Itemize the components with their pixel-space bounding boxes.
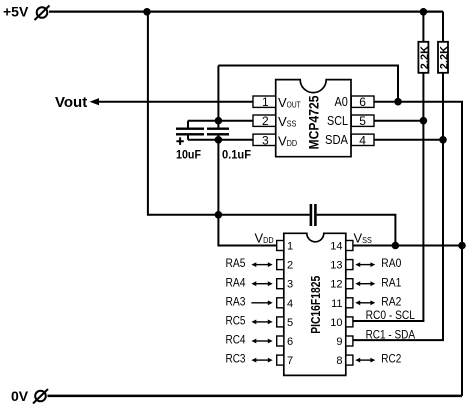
svg-text:1: 1 bbox=[287, 241, 293, 253]
power terminal +5V bbox=[35, 6, 50, 21]
svg-text:14: 14 bbox=[330, 241, 342, 253]
resistor R1 2.2K bbox=[418, 42, 431, 73]
node junction MCP VDD / C2 bbox=[215, 136, 223, 144]
IC U2 PIC16F1825 body bbox=[284, 233, 346, 375]
IC U1 MCP4725 DAC body bbox=[276, 80, 351, 157]
svg-text:3: 3 bbox=[262, 133, 269, 147]
svg-text:6: 6 bbox=[287, 336, 293, 348]
U2 pin 2 box bbox=[277, 260, 293, 272]
wire ground vertical above C2 bbox=[217, 66, 219, 128]
svg-text:11: 11 bbox=[331, 298, 342, 310]
svg-text:3: 3 bbox=[287, 279, 293, 291]
svg-text:RA4: RA4 bbox=[226, 275, 246, 289]
wire MCP pin 5 SCL bbox=[374, 120, 423, 122]
wire MCP pin 2 VSS bbox=[188, 120, 253, 122]
svg-text:8: 8 bbox=[336, 355, 342, 367]
node junction SCL / R1 bbox=[420, 117, 428, 125]
U1 pin 1 box bbox=[253, 95, 276, 109]
wire +5V vertical drop to VDD node bbox=[148, 12, 310, 215]
U2 pin 4 box bbox=[277, 298, 293, 310]
U2 pin 8 box bbox=[336, 355, 353, 367]
capacitor C2 0.1uF bbox=[207, 128, 229, 136]
U2 pin 10 box bbox=[330, 317, 353, 329]
wire +5V rail bbox=[49, 10, 443, 12]
port RA2 bbox=[355, 294, 401, 308]
svg-text:RC1 - SDA: RC1 - SDA bbox=[366, 327, 415, 341]
svg-text:RA3: RA3 bbox=[226, 294, 246, 308]
svg-text:5: 5 bbox=[287, 317, 293, 329]
svg-text:SCL: SCL bbox=[327, 113, 348, 128]
node junction A0 wire / ground link bbox=[394, 98, 402, 106]
U2 pin 11 box bbox=[331, 298, 353, 310]
wire VDD vertical below C2 bbox=[217, 135, 219, 214]
U2 pin 6 box bbox=[277, 336, 293, 348]
svg-text:10uF: 10uF bbox=[176, 148, 201, 162]
svg-text:RC3: RC3 bbox=[226, 352, 246, 366]
port RA0 bbox=[355, 256, 401, 270]
port RA3 bbox=[226, 294, 273, 308]
resistor R2 2.2K bbox=[438, 42, 451, 73]
U2 pin 5 box bbox=[277, 317, 293, 329]
U1 pin 3 box bbox=[253, 133, 276, 147]
svg-text:1: 1 bbox=[262, 95, 269, 109]
U2 pin 7 box bbox=[277, 355, 293, 367]
svg-text:10: 10 bbox=[330, 317, 342, 329]
svg-text:PIC16F1825: PIC16F1825 bbox=[308, 276, 323, 334]
svg-text:6: 6 bbox=[359, 95, 366, 109]
svg-text:RA2: RA2 bbox=[381, 294, 401, 308]
svg-text:2: 2 bbox=[262, 114, 269, 128]
U2 pin 1 box bbox=[277, 241, 293, 253]
port RC2 bbox=[355, 352, 401, 366]
svg-text:7: 7 bbox=[287, 355, 293, 367]
wire A0-to-ground link bbox=[218, 66, 398, 102]
svg-text:RC0 - SCL: RC0 - SCL bbox=[366, 308, 416, 322]
wire R1 top lead bbox=[422, 12, 424, 42]
U2 pin 9 box bbox=[336, 336, 353, 348]
U1 pin 4 box bbox=[351, 133, 374, 147]
U2 pin 3 box bbox=[277, 279, 293, 291]
node junction MCP VSS / ground vertical bbox=[215, 117, 223, 125]
wire MCP pin 6 A0 to 0V right edge bbox=[374, 102, 462, 396]
svg-text:2.2K: 2.2K bbox=[439, 46, 451, 69]
wire C1 top lead bbox=[187, 121, 189, 128]
svg-text:0V: 0V bbox=[11, 388, 29, 404]
U2 pin 14 box bbox=[330, 241, 353, 253]
ground terminal 0V bbox=[33, 389, 48, 404]
svg-text:RA0: RA0 bbox=[381, 256, 401, 270]
svg-text:2: 2 bbox=[287, 260, 293, 272]
wire MCP pin 3 VDD bbox=[188, 139, 253, 141]
svg-text:4: 4 bbox=[359, 133, 366, 147]
svg-text:RA1: RA1 bbox=[381, 275, 401, 289]
node junction PIC VSS / 0V vertical bbox=[458, 242, 466, 250]
port RA4 bbox=[226, 275, 273, 289]
U1 pin 6 box bbox=[351, 95, 374, 109]
wire VSS segment right of decoupling cap C3 bbox=[317, 215, 396, 246]
wire VDD node down to PIC pin 1 bbox=[218, 215, 276, 246]
wire C1 bottom lead bbox=[187, 135, 189, 139]
wire MCP pin 4 SDA bbox=[374, 139, 443, 141]
wire 0V rail bbox=[48, 395, 463, 398]
svg-text:MCP4725: MCP4725 bbox=[306, 95, 322, 149]
svg-text:4: 4 bbox=[287, 298, 293, 310]
svg-text:9: 9 bbox=[336, 336, 342, 348]
port RC4 bbox=[226, 333, 273, 347]
port RA1 bbox=[355, 275, 401, 289]
port RA5 bbox=[226, 256, 273, 270]
svg-text:A0: A0 bbox=[335, 94, 348, 109]
svg-text:2.2K: 2.2K bbox=[419, 46, 431, 69]
wire R2 bottom / SDA net to PIC pin 9 bbox=[353, 73, 443, 340]
node junction PIC VSS / C3 branch bbox=[392, 242, 400, 250]
arrow Vout output bbox=[90, 98, 100, 105]
capacitor C1 10uF electrolytic bbox=[176, 128, 204, 145]
svg-text:RC4: RC4 bbox=[226, 333, 246, 347]
U2 pin 13 box bbox=[330, 260, 353, 272]
U1 pin 5 box bbox=[351, 114, 374, 128]
wire PIC pin 14 VSS to 0V bbox=[353, 245, 462, 247]
svg-text:SDA: SDA bbox=[325, 132, 348, 147]
U1 pin 2 box bbox=[253, 114, 276, 128]
node junction VDD node bbox=[215, 211, 223, 219]
svg-text:0.1uF: 0.1uF bbox=[222, 148, 251, 162]
svg-text:13: 13 bbox=[330, 260, 342, 272]
port RC3 bbox=[226, 352, 273, 366]
svg-text:RC5: RC5 bbox=[226, 314, 246, 328]
wire R2 top lead bbox=[442, 12, 444, 42]
node junction SDA / R2 bbox=[439, 136, 447, 144]
node junction +5V rail / R1 bbox=[420, 8, 428, 16]
wire Vout to MCP pin 1 bbox=[95, 101, 253, 103]
capacitor C3 PIC decoupling bbox=[310, 204, 317, 226]
svg-text:12: 12 bbox=[330, 279, 342, 291]
wire R1 bottom / SCL net to PIC pin 10 bbox=[353, 73, 424, 321]
svg-text:Vout: Vout bbox=[55, 94, 87, 111]
node junction +5V rail / vertical drop bbox=[143, 8, 151, 16]
svg-text:+5V: +5V bbox=[3, 4, 29, 20]
U2 pin 12 box bbox=[330, 279, 353, 291]
svg-text:RC2: RC2 bbox=[381, 352, 401, 366]
svg-text:RA5: RA5 bbox=[226, 256, 246, 270]
port RC5 bbox=[226, 314, 273, 328]
svg-text:5: 5 bbox=[359, 114, 366, 128]
